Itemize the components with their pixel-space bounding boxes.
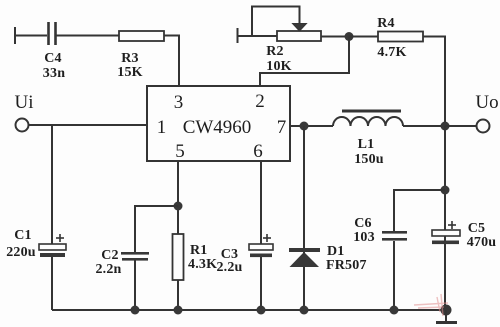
R3 value label <box>117 51 143 80</box>
wire T1 to C4 <box>15 35 47 37</box>
svg-text:C5: C5 <box>468 221 486 236</box>
svg-text:C6: C6 <box>354 216 372 231</box>
Uo label <box>475 92 498 113</box>
input terminal Ui <box>16 119 29 132</box>
potentiometer R2 body <box>277 31 321 41</box>
node C (pin7/D1 junction) <box>300 122 309 131</box>
ground rail (bottom) <box>52 309 446 311</box>
wire C6 to rail <box>393 241 395 310</box>
capacitor C6 <box>382 231 407 241</box>
svg-text:D1: D1 <box>327 244 345 259</box>
Ui label <box>15 92 34 113</box>
wire branch down to C1 <box>51 125 53 244</box>
svg-text:L1: L1 <box>358 137 375 152</box>
watermark (faint red) <box>414 294 448 316</box>
rail junction dot (R1) <box>174 306 183 315</box>
rail end junction dot <box>441 305 452 316</box>
capacitor C3 (electrolytic) <box>249 234 273 257</box>
wire wiper loop to left terminal <box>252 7 300 37</box>
svg-text:2.2n: 2.2n <box>95 262 121 277</box>
wire L1 to node D <box>403 125 445 127</box>
wire node D to Uo <box>445 125 476 127</box>
capacitor C1 (electrolytic) <box>39 234 66 257</box>
svg-text:2.2u: 2.2u <box>216 260 242 275</box>
resistor R1 <box>173 234 184 280</box>
capacitor C5 (electrolytic) <box>432 221 460 244</box>
wire R4 to output node <box>423 37 445 127</box>
svg-text:470u: 470u <box>467 235 497 250</box>
C1 value label <box>6 228 36 260</box>
wire node A to pin 2 <box>260 37 349 87</box>
wire pin 6 down to C3 <box>260 161 262 244</box>
svg-text:R4: R4 <box>377 16 395 31</box>
wire R1 to rail <box>177 280 179 310</box>
svg-text:10K: 10K <box>266 59 292 74</box>
C4 value label <box>43 51 65 81</box>
node B (pin5/R1/C2 junction) <box>174 202 183 211</box>
svg-text:C4: C4 <box>44 51 62 66</box>
inductor L1 coil <box>333 117 403 126</box>
svg-text:7: 7 <box>277 117 287 138</box>
inductor L1 core bar <box>342 110 401 113</box>
node D (L1/R4/output junction) <box>441 122 450 131</box>
C3 value label <box>216 247 242 275</box>
wire node D down output branch <box>444 126 446 310</box>
svg-text:FR507: FR507 <box>326 258 367 273</box>
wire T2 to R2 <box>238 35 278 37</box>
wire node A to R4 <box>349 36 378 38</box>
ground <box>436 310 457 323</box>
wire Ui to pin 1 <box>29 124 148 126</box>
wire pin 7 to node C <box>290 125 333 127</box>
svg-text:1: 1 <box>157 117 167 138</box>
wire C1 to ground rail <box>51 257 53 310</box>
svg-text:103: 103 <box>353 230 375 245</box>
svg-text:CW4960: CW4960 <box>183 117 252 138</box>
terminal tick T2 (left end of R2 net) <box>237 28 239 43</box>
L1 value label <box>354 137 384 167</box>
svg-text:15K: 15K <box>117 65 143 80</box>
svg-text:6: 6 <box>253 141 263 162</box>
svg-text:5: 5 <box>175 141 185 162</box>
R4 value label <box>377 16 406 60</box>
svg-text:33n: 33n <box>43 66 65 81</box>
output terminal Uo <box>477 120 490 133</box>
svg-text:4.3K: 4.3K <box>188 257 217 272</box>
svg-text:Uo: Uo <box>475 92 498 113</box>
resistor R4 <box>378 32 423 42</box>
wire C4 to R3 <box>56 35 119 37</box>
node A (R2/R4/pin2 junction) <box>345 32 354 41</box>
terminal tick T1 (left end of C4 net) <box>14 27 16 44</box>
wire pin 5 down <box>177 161 179 234</box>
wire C2 to rail <box>134 260 136 310</box>
wire C3 to rail <box>260 257 262 310</box>
rail junction dot (C2) <box>131 306 140 315</box>
C5 value label <box>467 221 497 250</box>
svg-text:C2: C2 <box>101 248 119 263</box>
rail junction dot (D1) <box>300 306 309 315</box>
rail junction dot (C6) <box>390 306 399 315</box>
svg-text:R2: R2 <box>266 44 284 59</box>
svg-text:Ui: Ui <box>15 92 34 113</box>
capacitor C2 <box>121 252 149 261</box>
svg-text:220u: 220u <box>6 245 36 260</box>
svg-text:4.7K: 4.7K <box>377 45 406 60</box>
capacitor C4 <box>49 22 56 45</box>
svg-text:150u: 150u <box>354 152 384 167</box>
R2 value label <box>266 44 292 74</box>
svg-text:3: 3 <box>174 92 184 113</box>
svg-text:R3: R3 <box>121 51 139 66</box>
svg-text:C1: C1 <box>14 228 32 243</box>
C2 value label <box>95 248 121 277</box>
op-amp U1 CW4960 regulator box <box>147 86 290 161</box>
R1 value label <box>188 243 217 272</box>
node E (C6 branch junction) <box>441 186 450 195</box>
wire node B to C2 <box>135 206 178 252</box>
C6 value label <box>353 216 375 245</box>
wire R2 to node A <box>321 36 349 38</box>
wire node C down through D1 <box>303 126 305 310</box>
U1 pin labels <box>157 91 287 162</box>
rail junction dot (C3) <box>257 306 266 315</box>
resistor R3 <box>119 31 164 41</box>
svg-text:2: 2 <box>255 91 265 112</box>
D1 value label <box>326 244 367 273</box>
svg-text:R1: R1 <box>190 243 208 258</box>
wire node E to C6 <box>394 190 445 231</box>
wire R3 to pin 3 <box>164 36 179 87</box>
diode D1 <box>289 248 320 267</box>
potentiometer R2 wiper arrow <box>293 24 307 32</box>
